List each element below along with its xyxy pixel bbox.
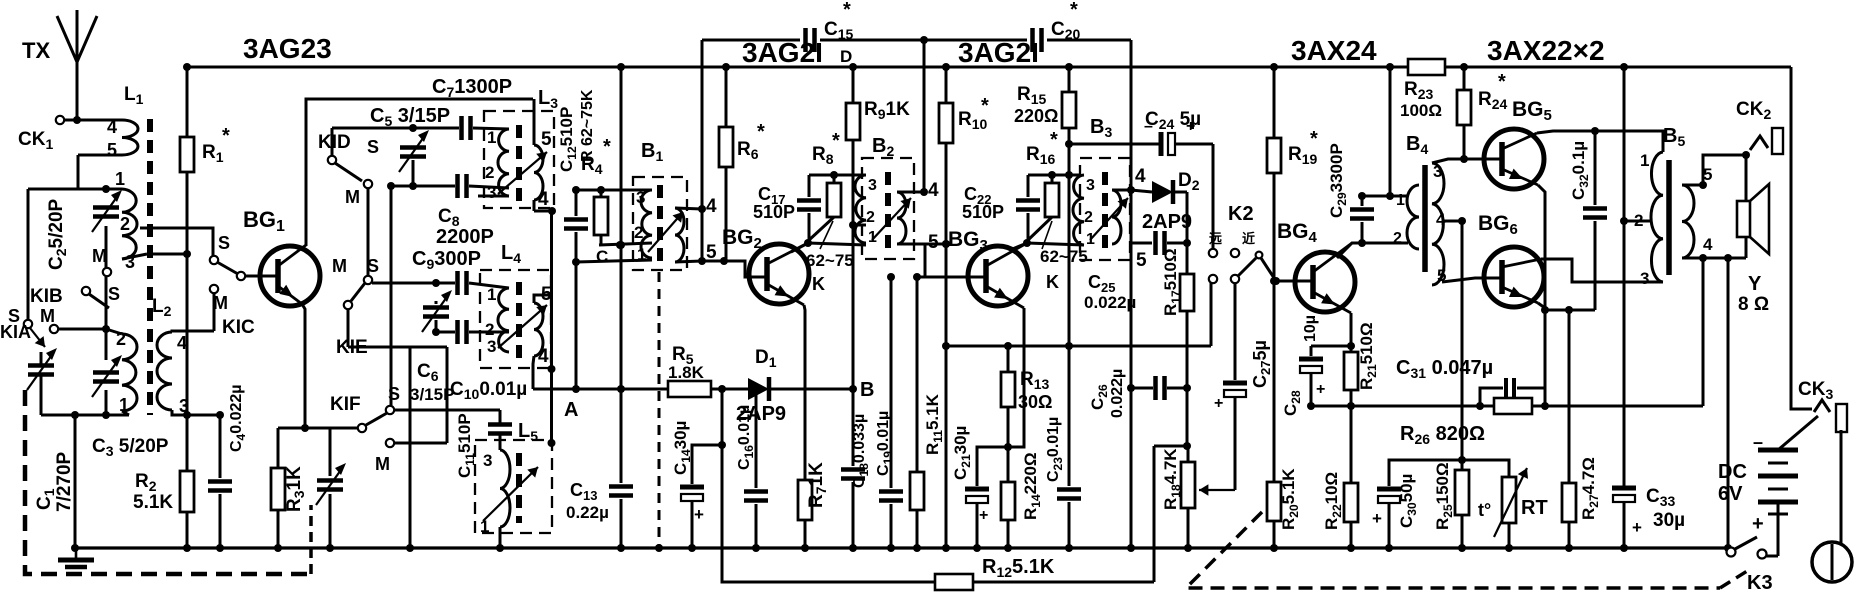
svg-text:*: * <box>222 125 230 147</box>
svg-text:C: C <box>596 247 608 266</box>
svg-text:KID: KID <box>318 132 351 153</box>
capacitor C24 5u <box>1069 143 1160 146</box>
svg-text:R115.1K: R115.1K <box>923 393 945 455</box>
resistor R14 220 <box>1001 482 1015 520</box>
dashed link volume to K3 <box>1186 512 1720 588</box>
svg-text:C9300P: C9300P <box>412 248 481 272</box>
wire B1 pin2 row / node C <box>599 243 652 245</box>
svg-text:KIF: KIF <box>330 394 361 415</box>
wire emitter BG6 <box>1538 303 1545 308</box>
wire C6 row to L4 pin2 <box>436 331 455 334</box>
wire M chain down <box>390 186 393 406</box>
variable padder capacitor <box>329 428 332 476</box>
wire B2 pin5 to BG3 base <box>897 243 946 246</box>
wire return to rail <box>1727 258 1730 548</box>
contact M (K1D) <box>364 180 372 188</box>
svg-text:A: A <box>564 399 578 421</box>
wire KIA to C1 <box>40 352 43 366</box>
svg-text:KIB: KIB <box>30 286 63 307</box>
svg-text:R26 820Ω: R26 820Ω <box>1400 423 1485 447</box>
svg-text:R2210Ω: R2210Ω <box>1322 472 1344 530</box>
wire emitter BG5 <box>1538 185 1545 406</box>
indicator lamp <box>1812 542 1852 582</box>
switch K1C S contact <box>210 256 218 264</box>
svg-text:*: * <box>981 95 989 117</box>
svg-text:3: 3 <box>487 337 496 356</box>
coil L1 main winding (pins 1-2-3) <box>106 188 122 191</box>
svg-text:4: 4 <box>107 117 117 137</box>
svg-text:2: 2 <box>634 223 643 242</box>
svg-text:K: K <box>812 274 825 294</box>
svg-text:S: S <box>218 233 230 253</box>
svg-text:2: 2 <box>1393 230 1402 247</box>
switch K1C lever <box>217 262 238 274</box>
resistor R21 510 <box>1344 352 1358 390</box>
svg-text:1: 1 <box>487 128 496 147</box>
svg-text:D: D <box>840 47 852 66</box>
coil B3 primary <box>1073 175 1084 245</box>
oscillator switch wire / K1F node <box>278 427 362 430</box>
svg-text:C12510P: C12510P <box>557 107 579 172</box>
capacitor C23 0.01u <box>1057 487 1081 492</box>
diode D1 2AP9 <box>748 378 769 400</box>
transistor BG2 <box>749 244 809 304</box>
capacitor C13 0.22u <box>609 484 633 489</box>
coil B4 secondary <box>1432 163 1444 285</box>
switch K3 <box>1727 548 1736 557</box>
svg-text:4: 4 <box>706 196 717 217</box>
wire B2 pin2 to B node <box>853 224 866 227</box>
wire C1 to bottom <box>40 374 43 415</box>
wire down to node B <box>852 225 855 389</box>
capacitor C14 30u <box>692 445 722 484</box>
resistor R16 <box>1045 183 1059 217</box>
svg-text:30Ω: 30Ω <box>1018 392 1052 412</box>
svg-text:KIA: KIA <box>0 322 31 342</box>
resistor R7 1K <box>798 480 812 520</box>
capacitor C33 30u <box>1612 486 1636 491</box>
svg-text:R91K: R91K <box>864 99 910 122</box>
capacitor C8 2200P <box>455 174 460 198</box>
svg-text:0.22µ: 0.22µ <box>566 503 609 522</box>
svg-text:R 62~75K: R 62~75K <box>579 89 596 162</box>
jack CK1 <box>56 116 64 124</box>
shield box L4 <box>480 270 551 368</box>
svg-text:5: 5 <box>541 284 552 305</box>
wire C8 row <box>391 185 455 188</box>
tuning arrow L3 <box>498 152 547 194</box>
svg-text:R17510Ω: R17510Ω <box>1161 248 1183 316</box>
wire supply / C33 line <box>1623 67 1626 487</box>
svg-text:C2130µ: C2130µ <box>951 426 973 480</box>
svg-text:*: * <box>1310 128 1318 150</box>
resistor R12 5.1K <box>935 574 973 590</box>
core B5 <box>1666 160 1672 275</box>
transistor BG4 <box>1295 252 1355 312</box>
resistor R4 <box>594 197 608 235</box>
wire collector BG6 <box>1541 259 1663 282</box>
wire R16 bottom <box>1027 217 1052 241</box>
wire top of C17/R8 <box>809 174 865 177</box>
tuning arrow B1 <box>648 212 683 252</box>
capacitor C27 5u <box>1234 283 1237 380</box>
core L4 <box>516 282 522 358</box>
svg-text:510P: 510P <box>753 202 795 222</box>
resistor R13 30 <box>1007 346 1010 372</box>
resistor R3 1K <box>277 428 280 468</box>
core B1 <box>657 185 663 262</box>
resistor R25 150 <box>1461 460 1464 470</box>
resistor R8 <box>827 183 841 217</box>
svg-text:+: + <box>1632 518 1642 537</box>
capacitor C11 510P cap <box>488 422 512 427</box>
svg-text:M: M <box>40 306 55 326</box>
svg-text:7/270P: 7/270P <box>54 451 75 512</box>
switch K1E <box>364 276 372 284</box>
wire B3 pin1 <box>1027 243 1084 245</box>
svg-text:3: 3 <box>483 451 492 470</box>
svg-text:4: 4 <box>928 180 939 201</box>
wire R12 feedback line <box>722 389 935 582</box>
capacitor C26 0.022u <box>1153 376 1158 400</box>
svg-text:C11510P: C11510P <box>455 413 477 478</box>
coil L1 lower winding <box>122 334 137 411</box>
svg-text:30µ: 30µ <box>1653 510 1685 531</box>
ground <box>75 549 78 560</box>
resistor R6 <box>725 67 728 127</box>
transistor BG1 <box>260 246 320 306</box>
wire C5 top <box>332 127 459 130</box>
resistor R22 10 <box>1344 483 1358 522</box>
tuning arrow L4 <box>498 305 547 348</box>
svg-text:R184.7K: R184.7K <box>1161 448 1183 510</box>
resistor R20 5.1K <box>1267 482 1281 521</box>
wire B5 pin5 to CK2 <box>1682 184 1703 187</box>
capacitor C3 5/20P <box>93 370 119 375</box>
svg-text:1: 1 <box>119 395 129 415</box>
wire B3 pin4 <box>1112 189 1131 192</box>
svg-text:2: 2 <box>116 329 126 349</box>
thermistor RT <box>1462 460 1509 477</box>
coil B1 primary <box>641 190 652 258</box>
wire M line up <box>446 347 449 443</box>
wire K1E to C6 line <box>347 309 350 347</box>
wire L4 pin5 <box>534 295 552 303</box>
wire node A to node B <box>533 388 748 391</box>
ferrite core L1/L2 <box>147 119 153 415</box>
capacitor C30 50u <box>1389 460 1462 486</box>
dashed shield left <box>25 390 310 574</box>
resistor R1 <box>186 67 189 137</box>
svg-text:–: – <box>1144 118 1153 135</box>
potentiometer R18 4.7K <box>1181 462 1195 508</box>
svg-text:M: M <box>213 293 228 313</box>
svg-text:*: * <box>1498 71 1506 93</box>
capacitor C4 0.022u <box>219 415 222 478</box>
svg-text:5: 5 <box>928 232 939 253</box>
svg-text:+: + <box>1752 513 1764 535</box>
svg-text:R21510Ω: R21510Ω <box>1357 322 1379 390</box>
coil L1 top winding (pins 4-5) <box>77 119 122 122</box>
wire top of C22/R16 <box>1028 174 1080 177</box>
svg-text:Y: Y <box>1748 273 1762 295</box>
wire B4 pin5 to BG6 base <box>1442 278 1503 282</box>
shield box B1 <box>633 177 687 270</box>
tuning arrow B3 <box>1090 198 1128 240</box>
svg-text:*: * <box>757 121 765 143</box>
svg-text:*: * <box>1070 0 1078 21</box>
svg-text:C5 3/15P: C5 3/15P <box>370 105 450 129</box>
wire bottom ground rail <box>75 546 1731 549</box>
wire L5 to rail <box>499 527 502 548</box>
wire emitters to C32 <box>1545 309 1595 312</box>
wire R12 to R18 <box>1154 445 1188 448</box>
diode D2 2AP9 <box>1131 190 1152 192</box>
svg-text:+: + <box>1186 118 1195 135</box>
capacitor C15 (AGC) <box>803 28 808 52</box>
svg-text:1: 1 <box>487 285 496 304</box>
capacitor C16 0.01u <box>755 389 758 488</box>
resistor R19 <box>1273 67 1276 138</box>
svg-text:1.8K: 1.8K <box>668 363 705 382</box>
coil L3 primary <box>498 129 509 196</box>
core B4 <box>1422 165 1428 272</box>
wire C2 to C3 <box>105 226 108 360</box>
core B2 <box>885 172 891 252</box>
svg-text:2AP9: 2AP9 <box>1142 211 1192 233</box>
wire AGC top line <box>702 39 800 42</box>
svg-text:+: + <box>1316 381 1325 398</box>
coil L3 secondary <box>534 145 543 200</box>
switch K1F <box>386 406 394 414</box>
resistor R26 820 <box>1494 398 1532 414</box>
svg-text:2: 2 <box>485 163 494 182</box>
svg-text:1: 1 <box>1640 151 1649 170</box>
svg-text:3AG2I: 3AG2I <box>958 37 1039 68</box>
coil B2 primary <box>855 175 866 243</box>
svg-text:510P: 510P <box>962 202 1004 222</box>
switch K1D <box>328 156 336 164</box>
wiper arrow R18 <box>1199 489 1235 491</box>
switch K1B <box>82 287 90 295</box>
svg-text:3: 3 <box>636 188 645 207</box>
callout R16 <box>1042 221 1052 249</box>
svg-text:远: 远 <box>1209 231 1222 246</box>
wire B4 pin3 to BG5 base <box>1432 159 1503 163</box>
svg-text:t°: t° <box>1478 500 1491 520</box>
svg-text:3: 3 <box>1086 177 1095 194</box>
capacitor C28 10u <box>1311 345 1351 348</box>
wire feedback y406 <box>1311 405 1494 408</box>
svg-text:3AG23: 3AG23 <box>243 33 332 64</box>
capacitor C21 30u <box>977 447 1008 486</box>
wire K2 to BG4 base <box>1261 258 1276 281</box>
resistor R10 <box>945 67 948 103</box>
capacitor C7 1300P <box>459 116 464 140</box>
wire battery minus <box>1777 504 1780 556</box>
coil L5 <box>500 450 510 527</box>
svg-text:4: 4 <box>1135 166 1146 187</box>
wire bottom input node <box>41 414 129 417</box>
wire AGC right end <box>1130 40 1133 190</box>
wire B2 pin1 <box>808 243 866 245</box>
svg-text:3AX24: 3AX24 <box>1291 35 1377 66</box>
svg-text:2200P: 2200P <box>436 226 494 248</box>
shield box B2 <box>862 158 914 259</box>
svg-text:R71K: R71K <box>806 462 829 508</box>
emitter BG4 <box>1350 313 1353 352</box>
svg-text:R31K: R31K <box>284 466 307 512</box>
svg-text:+: + <box>979 507 988 524</box>
svg-text:R205.1K: R205.1K <box>1279 468 1301 530</box>
capacitor C12 <box>564 217 588 222</box>
switch K2 contacts <box>1209 249 1217 257</box>
wire base BG1 <box>237 272 245 280</box>
svg-text:C3 5/20P: C3 5/20P <box>92 436 169 459</box>
coil B5 secondary <box>1682 185 1694 258</box>
capacitor C6 3/15P <box>423 305 449 310</box>
resistor R15 220 <box>1068 67 1071 92</box>
emitter BG3 <box>1008 308 1024 447</box>
svg-text:+: + <box>694 505 704 524</box>
svg-text:RT: RT <box>1521 497 1548 519</box>
capacitor C5 var <box>400 145 426 150</box>
wire osc link L3-L4-L5 <box>550 211 553 443</box>
resistor R2 5.1K <box>186 415 189 471</box>
shield box L3 <box>484 111 554 208</box>
svg-text:*: * <box>603 136 611 158</box>
wire collector BG3 <box>1010 243 1027 250</box>
wire C12/R4 node <box>575 232 578 389</box>
svg-text:+: + <box>1372 509 1382 528</box>
svg-text:K2: K2 <box>1228 203 1254 225</box>
callout R8 <box>820 221 833 249</box>
svg-text:5.1K: 5.1K <box>133 492 173 513</box>
capacitor C19 0.01u <box>890 277 893 488</box>
coil L2 winding <box>157 332 172 410</box>
svg-text:2: 2 <box>120 214 130 234</box>
wire speaker top <box>1745 155 1748 201</box>
contact M (K1C) <box>210 285 218 293</box>
capacitor C25 0.022u <box>1153 231 1158 255</box>
svg-text:10µ: 10µ <box>1302 315 1319 342</box>
svg-text:1: 1 <box>1396 192 1405 209</box>
svg-text:TX: TX <box>22 38 50 63</box>
wire C24 to K2 <box>1212 144 1215 249</box>
contact M (K1F) <box>386 439 394 447</box>
svg-text:*: * <box>1050 129 1058 151</box>
coil B5 primary <box>1651 152 1663 282</box>
wire B1 pin5 to BG2 base <box>675 261 768 277</box>
svg-text:R14220Ω: R14220Ω <box>1021 452 1043 520</box>
core B3 <box>1102 172 1108 252</box>
svg-text:B: B <box>860 379 874 401</box>
wire L1 pin3 to R1 line <box>147 253 187 256</box>
capacitor C20 (AGC) <box>1030 28 1035 52</box>
wire B1 pin1 row <box>576 260 652 262</box>
wire K2 to AGC line <box>1210 283 1213 346</box>
svg-text:C25/20P: C25/20P <box>46 198 69 270</box>
tuning arrow L5 <box>483 467 538 521</box>
coil B4 primary <box>1407 185 1419 249</box>
wire base BG4 <box>1276 280 1314 283</box>
svg-text:C71300P: C71300P <box>432 76 512 100</box>
wire R8 bottom <box>808 217 834 241</box>
switch K2 lever <box>1238 258 1256 276</box>
wire B5 pin4 return <box>1682 257 1746 260</box>
shield box B3 <box>1080 158 1130 260</box>
svg-text:S: S <box>108 284 120 304</box>
svg-text:3: 3 <box>1640 269 1649 288</box>
svg-text:4: 4 <box>538 189 549 210</box>
svg-text:近: 近 <box>1242 231 1255 246</box>
wire emitter BG1 <box>302 304 305 428</box>
svg-text:3: 3 <box>487 183 496 202</box>
wire B5 pin2 tap <box>1624 220 1651 223</box>
svg-text:220Ω: 220Ω <box>1014 106 1058 126</box>
capacitor C22 510P <box>1027 175 1030 197</box>
svg-text:6V: 6V <box>1718 483 1743 505</box>
svg-text:R125.1K: R125.1K <box>982 556 1055 580</box>
transistor BG6 <box>1484 247 1544 307</box>
wire K1F to C11 <box>394 409 500 412</box>
svg-text:C320.1µ: C320.1µ <box>1569 141 1591 200</box>
capacitor C18 0.033u <box>852 389 855 466</box>
wire collector BG1 to C7 loop <box>306 99 533 246</box>
svg-text:S: S <box>367 256 379 276</box>
wire B3 vertical down <box>1130 243 1133 548</box>
wire B4 pin1 to rail <box>1389 67 1392 196</box>
svg-text:M: M <box>375 454 390 474</box>
wire lamp <box>1840 430 1843 543</box>
svg-text:1: 1 <box>115 169 125 189</box>
main vertical x=621 <box>620 67 623 483</box>
wire top supply rail <box>186 66 1408 69</box>
svg-text:3: 3 <box>868 177 877 194</box>
svg-text:2: 2 <box>1084 209 1093 226</box>
wire B3 pin5 / C25 <box>1130 190 1133 243</box>
wire C9 row <box>372 282 455 285</box>
wire B1 pin3 row <box>576 189 652 192</box>
svg-text:3AG2I: 3AG2I <box>742 37 823 68</box>
capacitor C9 300P <box>455 271 460 295</box>
wire AGC mid to B2 <box>923 40 926 192</box>
svg-text:R25150Ω: R25150Ω <box>1433 462 1455 530</box>
switch K1A <box>27 189 30 320</box>
wire collector BG2 <box>791 243 808 252</box>
svg-text:2: 2 <box>1634 211 1643 230</box>
wire collector BG4 to B4 <box>1337 243 1408 258</box>
svg-text:100Ω: 100Ω <box>1400 101 1442 120</box>
shield ground B1 <box>658 272 661 545</box>
svg-text:DC: DC <box>1718 461 1747 483</box>
coil L4 primary <box>498 288 509 352</box>
resistor R27 4.7 <box>1568 310 1571 483</box>
svg-text:K: K <box>1046 272 1059 292</box>
coil B2 secondary <box>897 192 906 244</box>
capacitor (osc) <box>455 320 460 344</box>
svg-text:M: M <box>345 187 360 207</box>
wire M contact <box>50 325 58 333</box>
speaker Y <box>1737 201 1750 237</box>
svg-text:R274.7Ω: R274.7Ω <box>1579 457 1601 520</box>
wire B4 pin4 bias <box>1444 220 1462 223</box>
svg-text:*: * <box>843 0 851 21</box>
wire base BG3 <box>917 276 987 279</box>
capacitor C2 5/20P <box>93 205 119 210</box>
svg-text:62~75: 62~75 <box>806 251 854 270</box>
transistor BG3 <box>968 246 1028 306</box>
